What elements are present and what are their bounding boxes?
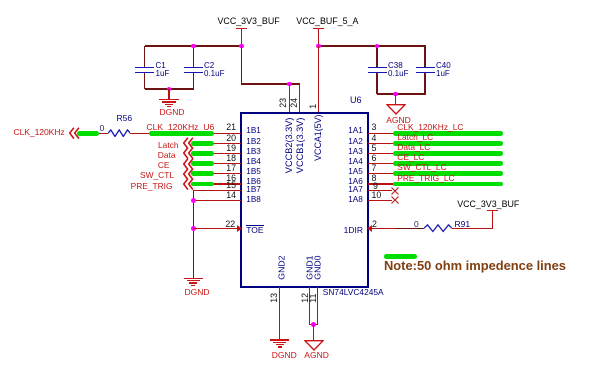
label R56 [117,114,133,123]
pin 2 stub [368,228,397,229]
power net label VCC_BUF_5_A [296,17,358,26]
pin number 6 [372,154,377,163]
label C2 [204,62,214,70]
pin name GND2 [276,256,287,280]
wire pin 12 GND1 [309,287,310,325]
junction pin 14 [191,198,196,203]
value 0.1uF C38 [388,70,408,78]
pin name 1B7 [246,186,261,194]
pin name 1A1 [243,127,363,135]
pin name 1B2 [246,138,261,146]
pin number 18 [116,154,236,163]
label AGND (bottom) [304,351,329,360]
wire pin 5 [368,153,394,154]
port CLK_120KHz chevron [69,127,80,140]
pin name 1A7 [243,186,363,194]
pin number 21 [116,123,236,132]
wire pin 14 [193,200,241,201]
pin name TOE (overline) [246,226,263,235]
port Data chevron [183,147,194,160]
pin name VCCA1(5V) [313,115,324,161]
wire join GND1 GND0 [309,324,318,325]
wire pin 1 VCCA1 [318,46,319,113]
pin number 8 [372,174,377,183]
net label Latch [59,141,179,149]
impedance trace Data [191,151,214,156]
pin name 1A4 [243,158,363,166]
pin number 4 [372,134,377,143]
pin number 10 [372,191,382,200]
junction VCC_BUF_5_A drop [316,44,321,49]
wire to pins 23 24 [241,83,300,84]
wire R56 to pin 21 [130,133,241,134]
wire C1-C2 bottom [145,88,194,89]
power symbol VCC_BUF_5_A [313,28,324,30]
power symbol VCC_3V3_BUF right [487,210,498,212]
junction GND1 GND0 [311,322,316,327]
capacitor C38 [376,46,377,67]
wire pin 10 [368,200,392,201]
junction pin 23 [287,82,292,87]
wire C38-C40 bottom [377,93,426,94]
pin number 22 [115,220,235,229]
net label SW_CTL [54,171,174,179]
wire PRE_TRIG to chip [191,183,241,184]
pin name 1B8 [246,196,261,204]
wire pin 13 GND2 [279,287,280,340]
pin number 12 [300,293,311,303]
wire CE to chip [191,163,241,164]
label AGND (top) [386,116,411,125]
ground DGND (top) [159,99,179,109]
pin name 1A2 [243,138,363,146]
label DGND (left) [185,288,210,297]
pin name 1B6 [246,178,261,186]
pin number 13 [269,293,280,303]
wire SW_CTL to chip [191,173,241,174]
wire pin 23 [289,84,290,112]
wire pin 8 [368,183,394,184]
ground DGND (left) [183,278,203,288]
wire pin 15 [193,190,241,191]
impedance trace SW_CTL [191,171,214,176]
pin name 1B1 [246,127,261,135]
net label SW_CTL_LC [397,163,446,171]
pin number 11 [308,293,319,302]
impedance trace PRE_TRIG_LC [393,182,503,187]
wire pin 24 [299,84,300,112]
value 1uF C40 [436,70,450,78]
impedance trace SW_CTL_LC [393,171,503,176]
pin number 3 [372,123,377,132]
junction pin 22 [191,226,196,231]
net label CE [50,161,170,169]
no-connect pin 10 [391,196,399,204]
impedance trace CLK left [77,131,99,136]
junction C38 top [375,44,380,49]
wire pin 3 [368,133,394,134]
impedance trace Latch [191,141,214,146]
label C40 [436,62,451,70]
junction C2 top [191,44,196,49]
resistor R91 [424,224,452,232]
designator U6 [350,96,362,105]
net label CE_LC [397,153,424,161]
pin number 9 [373,182,378,191]
note sample trace [384,254,417,259]
wire pin 7 [368,173,394,174]
wire 1DIR to R91 [396,228,424,229]
capacitor C1 [144,46,145,67]
pin name 1DIR [243,226,363,235]
label C1 [156,62,166,70]
pin number 15 [116,181,236,190]
wire CLK to R56 [79,133,108,134]
wire ground net vertical [193,191,194,278]
port Latch chevron [183,137,194,150]
arrow TOE input [237,225,242,232]
impedance trace CE [191,161,214,166]
pin name 1A5 [243,168,363,176]
wire pin 4 [368,143,394,144]
wire pin 11 GND0 [317,287,318,325]
op-amp U6 SN74LVC4245A chip body [240,112,369,288]
port SW_CTL chevron [183,168,194,181]
label R91 [455,220,471,229]
junction DGND drop [167,87,172,92]
resistor R56 [108,129,130,137]
label C38 [388,62,403,70]
net label CLK_120KHz_LC [397,123,463,131]
pin name VCCB1(3.3V) [295,118,306,174]
value 1uF [156,70,170,78]
value 0.1uF [204,70,224,78]
pin name GND1 [305,256,316,280]
net label PRE_TRIG_LC [397,174,454,182]
pin number 14 [116,191,236,200]
pin name 1A8 [243,196,363,204]
power net label VCC_3V3_BUF [218,17,280,26]
capacitor C2 [193,46,194,67]
label DGND (bottom) [272,351,297,360]
port PRE_TRIG chevron [183,178,194,191]
wire Data to chip [191,153,241,154]
impedance trace Latch_LC [393,141,503,146]
wire up to VCC_3V3_BUF [492,211,493,228]
pin number 16 [116,174,236,183]
pin number 7 [372,164,377,173]
wire pin 22 TOE [193,228,241,229]
impedance trace PRE_TRIG [191,182,214,187]
pin name GND0 [313,256,324,280]
impedance trace Data_LC [393,151,503,156]
wire pin 6 [368,163,394,164]
junction VCC_3V3_BUF drop [239,44,244,49]
wire pin 9 [368,190,392,191]
no-connect pin 9 [391,187,399,195]
pin number 24 [289,98,300,108]
pin number 2 [372,220,377,229]
pin name VCCB2(3.3V) [284,118,295,174]
net label Data_LC [397,143,430,151]
ground AGND (top) [386,104,406,115]
impedance trace CE_LC [393,161,503,166]
pin number 19 [116,144,236,153]
pin number 5 [372,144,377,153]
pin name 1B4 [246,158,261,166]
pin number 20 [116,134,236,143]
ground DGND (bottom) [270,339,290,349]
value 0 (R91) [414,220,419,229]
part number SN74LVC4245A [323,288,384,296]
wire R91 to VCC [452,228,493,229]
wire top-left rail [145,45,243,46]
net label CLK_120KHz [14,128,65,137]
pin name 1A6 [243,178,363,186]
wire top-right rail [319,45,426,46]
label DGND (top) [160,108,185,117]
wire to AGND [395,94,396,104]
junction AGND drop [393,92,398,97]
pin name 1A3 [243,148,363,156]
pin number 17 [116,164,236,173]
pin name 1B3 [246,148,261,156]
value 0 (R56) [100,124,105,133]
port CE chevron [183,158,194,171]
impedance trace CLK_120KHz_U6 [149,131,214,136]
power net label VCC_3V3_BUF right [457,200,519,209]
net label CLK_120KHz_U6 [146,123,214,132]
pin number 23 [279,98,290,108]
net label Latch_LC [397,133,433,141]
ground AGND (bottom) [304,340,324,351]
net label Data [56,151,176,159]
pin number 1 [308,104,319,109]
capacitor C40 [424,46,425,67]
wire to AGND bottom [313,324,314,339]
impedance trace CLK_120KHz_LC [393,131,503,136]
pin name 1B5 [246,168,261,176]
net label PRE_TRIG [53,182,173,190]
power symbol VCC_3V3_BUF [236,28,247,30]
wire Latch to chip [191,143,241,144]
arrow 1DIR input [367,225,372,232]
wire to DGND [168,89,169,99]
wire VCC3V3 down [241,46,242,85]
note text [384,260,566,273]
